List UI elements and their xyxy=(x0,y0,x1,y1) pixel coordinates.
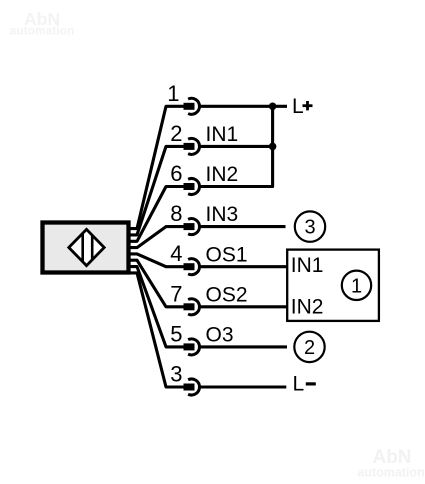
svg-text:1: 1 xyxy=(167,81,179,106)
svg-text:3: 3 xyxy=(304,217,315,239)
svg-text:L: L xyxy=(292,95,304,118)
svg-text:L: L xyxy=(293,373,305,396)
svg-text:IN2: IN2 xyxy=(206,163,239,186)
svg-text:IN2: IN2 xyxy=(291,296,324,319)
svg-text:7: 7 xyxy=(170,281,182,306)
svg-text:OS2: OS2 xyxy=(206,283,248,306)
svg-text:automation: automation xyxy=(10,24,75,38)
svg-text:IN1: IN1 xyxy=(291,254,324,277)
svg-text:2: 2 xyxy=(170,121,182,146)
svg-text:automation: automation xyxy=(357,466,424,480)
svg-text:OS1: OS1 xyxy=(206,243,248,266)
svg-text:2: 2 xyxy=(304,337,315,359)
svg-text:1: 1 xyxy=(351,275,362,297)
svg-text:6: 6 xyxy=(170,161,182,186)
svg-text:IN1: IN1 xyxy=(206,123,239,146)
svg-text:4: 4 xyxy=(170,241,182,266)
svg-text:5: 5 xyxy=(170,321,182,346)
svg-text:8: 8 xyxy=(170,201,182,226)
svg-text:O3: O3 xyxy=(206,324,234,347)
svg-text:3: 3 xyxy=(170,362,182,387)
svg-text:IN3: IN3 xyxy=(206,203,239,226)
